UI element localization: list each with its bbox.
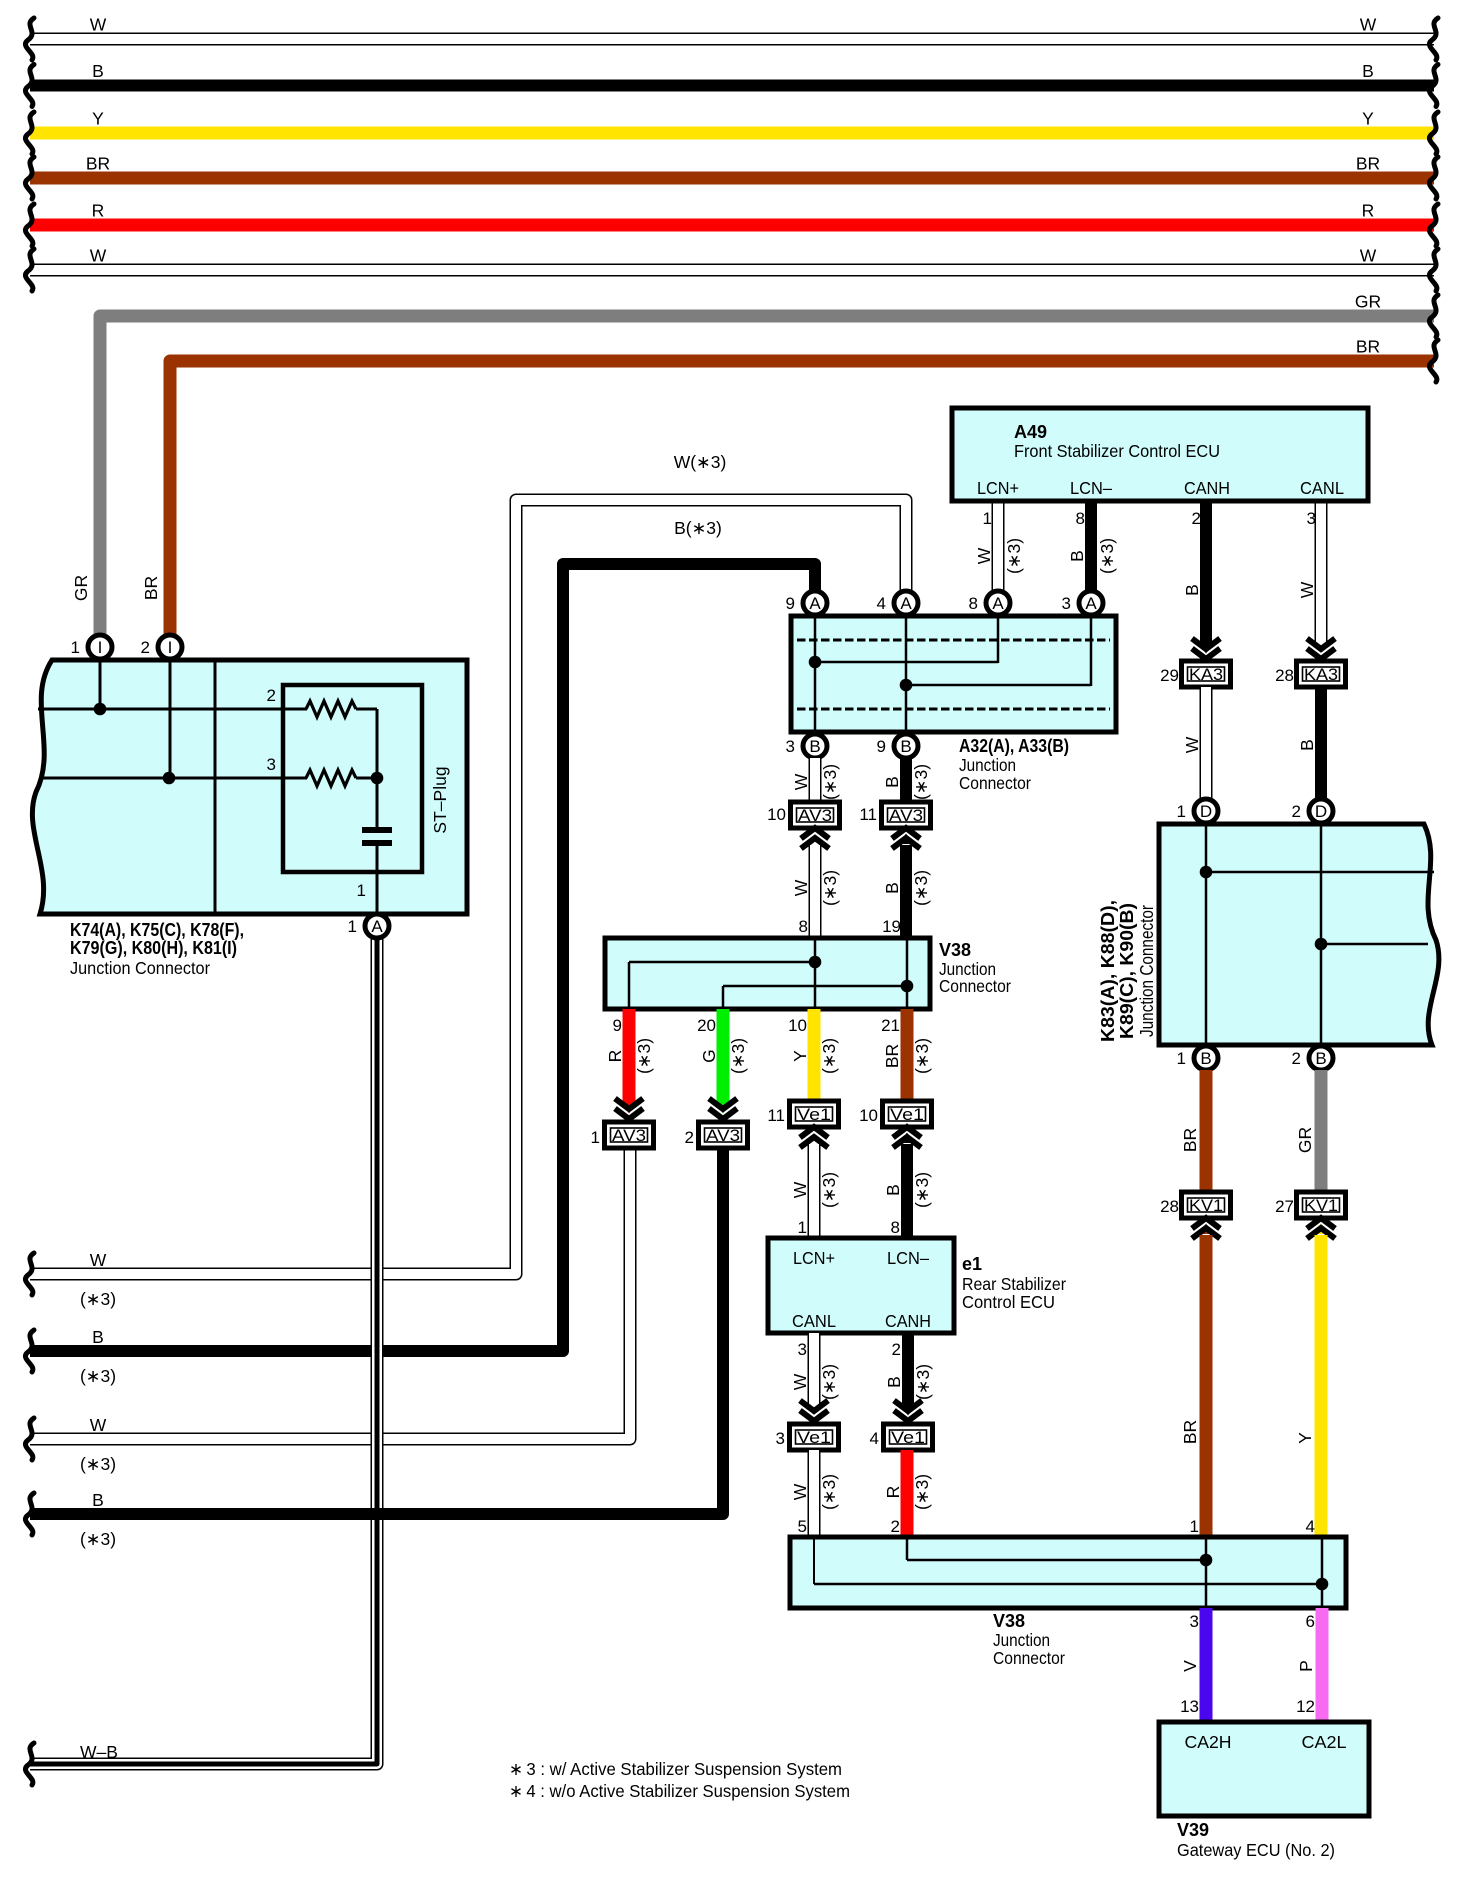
svg-text:3: 3 [267, 755, 276, 774]
wire R V38 pin9 to AV3 1 [623, 1009, 636, 1103]
svg-text:AV3: AV3 [706, 1127, 740, 1145]
svg-text:B: B [1200, 1049, 1211, 1068]
connector KV1 pin 28 [1182, 1192, 1231, 1218]
svg-text:B: B [92, 61, 104, 81]
svg-text:KA3: KA3 [1189, 666, 1223, 684]
svg-text:W: W [90, 15, 107, 35]
wire Y KV1 27 to V38 pin 4 [1315, 1235, 1328, 1540]
wire W from A49 LCN+ to A32 8A [992, 501, 1005, 592]
svg-text:Connector: Connector [993, 1648, 1065, 1668]
svg-text:1: 1 [348, 917, 357, 936]
connector AV3 pin 1 [605, 1122, 654, 1148]
svg-text:8: 8 [969, 594, 978, 613]
svg-text:W: W [1297, 581, 1317, 598]
arrow down into Ve1 3 [800, 1401, 828, 1422]
svg-text:Junction: Junction [993, 1630, 1050, 1650]
break right Y [1429, 112, 1438, 154]
svg-text:G: G [699, 1049, 719, 1063]
break left W [25, 18, 34, 60]
svg-text:13: 13 [1180, 1697, 1199, 1716]
svg-text:A32(A), A33(B): A32(A), A33(B) [959, 736, 1069, 756]
svg-text:W: W [1360, 15, 1377, 35]
break right B [1429, 65, 1438, 107]
svg-text:BR: BR [1180, 1420, 1200, 1444]
wire B e1 CANH to Ve1 4 [902, 1333, 914, 1406]
svg-text:W: W [790, 1373, 810, 1390]
svg-text:11: 11 [767, 1106, 785, 1125]
connector Ve1 pin 3 [790, 1424, 839, 1450]
node 1I [88, 635, 112, 659]
svg-text:K79(G), K80(H), K81(I): K79(G), K80(H), K81(I) [70, 938, 237, 958]
svg-text:ST–Plug: ST–Plug [430, 766, 450, 833]
svg-text:(∗3): (∗3) [80, 1289, 116, 1309]
svg-text:KV1: KV1 [1189, 1197, 1223, 1215]
wire P V38 pin6 to V39 CA2L [1316, 1608, 1329, 1722]
junction connector A32(A) A33(B) box [791, 616, 1116, 732]
svg-text:9: 9 [877, 737, 886, 756]
wire Y V38 pin10 to Ve1 11 [808, 1009, 821, 1101]
svg-text:A: A [1085, 594, 1097, 613]
svg-text:(∗3): (∗3) [820, 870, 840, 906]
wire W from A49 CANL to KA3 28 [1315, 501, 1328, 643]
arrow up from AV3 11 [892, 828, 920, 849]
svg-text:2: 2 [1292, 1049, 1301, 1068]
svg-text:GR: GR [71, 575, 91, 601]
svg-text:3: 3 [786, 737, 795, 756]
ST-Plug inner box [283, 685, 422, 872]
wire W Ve1 3 to V38 pin 5 [808, 1450, 821, 1540]
junction dot A32 right [900, 679, 913, 692]
svg-text:I: I [98, 638, 103, 657]
svg-text:(∗3): (∗3) [820, 764, 840, 800]
internal wire 3A to 4A [906, 684, 1091, 687]
svg-text:B: B [92, 1490, 104, 1510]
connector Ve1 pin 11 [790, 1101, 839, 1127]
svg-text:(∗3): (∗3) [80, 1366, 116, 1386]
svg-text:B: B [1067, 550, 1087, 562]
svg-text:GR: GR [1355, 292, 1381, 312]
ECU V39 Gateway ECU [1159, 1722, 1369, 1816]
break left R [25, 204, 34, 246]
svg-text:R: R [1362, 201, 1375, 221]
svg-text:4: 4 [870, 1429, 879, 1448]
svg-text:B: B [883, 1184, 903, 1196]
internal separator line K74 [214, 662, 217, 912]
internal wire 4A-9B [905, 618, 908, 730]
connector KA3 pin 28 [1297, 661, 1346, 687]
node 8A [986, 591, 1010, 615]
svg-text:Front Stabilizer Control ECU: Front Stabilizer Control ECU [1014, 441, 1220, 461]
connector Ve1 pin 4 [884, 1424, 933, 1450]
svg-text:5: 5 [798, 1517, 807, 1536]
wire BR KV1 28 to V38 pin 1 [1200, 1235, 1213, 1540]
svg-text:B: B [1182, 584, 1202, 596]
break left Y [25, 112, 34, 154]
svg-text:B(∗3): B(∗3) [674, 518, 722, 538]
svg-text:R: R [883, 1486, 903, 1499]
svg-text:(∗3): (∗3) [80, 1454, 116, 1474]
break left B [25, 65, 34, 107]
svg-text:4: 4 [877, 594, 886, 613]
internal wire resistor2 to vertical [356, 708, 377, 711]
svg-text:R: R [605, 1050, 625, 1063]
svg-text:B: B [809, 737, 820, 756]
svg-text:(∗3): (∗3) [911, 764, 931, 800]
svg-text:GR: GR [1295, 1127, 1315, 1153]
svg-text:(∗3): (∗3) [912, 1474, 932, 1510]
node 3A [1079, 591, 1103, 615]
dashed line upper A32 [797, 639, 1110, 642]
node 1D [1194, 799, 1218, 823]
wire GR from K74 pin1 to right [100, 316, 1434, 636]
internal wire 2D-2B [1320, 826, 1323, 1043]
svg-text:27: 27 [1275, 1197, 1294, 1216]
wire Y horizontal y=133 [30, 127, 1434, 140]
svg-text:CA2H: CA2H [1185, 1732, 1232, 1752]
svg-text:CANH: CANH [1184, 478, 1230, 498]
arrow down into AV3 1 [615, 1099, 643, 1120]
svg-text:3: 3 [1190, 1612, 1199, 1631]
wire B from A49 LCN- to A32 3A [1085, 501, 1097, 592]
break left W(*3) 2 [25, 1418, 34, 1460]
break left B(*3) 2 [25, 1493, 34, 1535]
svg-text:A49: A49 [1014, 422, 1047, 442]
svg-text:W–B: W–B [80, 1742, 118, 1762]
internal wire pin5 to pin4 [813, 1539, 815, 1584]
internal vertical to capacitor [376, 709, 379, 828]
node 2D [1309, 799, 1333, 823]
svg-text:(∗3): (∗3) [912, 1172, 932, 1208]
svg-text:KA3: KA3 [1304, 666, 1338, 684]
svg-text:BR: BR [86, 154, 110, 174]
node 1A [365, 914, 389, 938]
node 2B [1309, 1046, 1333, 1070]
junction dot V38b right [1316, 1578, 1329, 1591]
svg-text:2: 2 [1292, 802, 1301, 821]
arrow down into AV3 2 [709, 1099, 737, 1120]
svg-text:1: 1 [71, 638, 80, 657]
svg-text:W: W [974, 547, 994, 564]
svg-text:Junction: Junction [959, 755, 1016, 775]
svg-text:K74(A), K75(C), K78(F),: K74(A), K75(C), K78(F), [70, 920, 244, 940]
arrow up from KV1 28 [1192, 1218, 1220, 1239]
svg-text:(∗3): (∗3) [819, 1474, 839, 1510]
ECU e1 Rear Stabilizer Control ECU [768, 1238, 954, 1333]
connector Ve1 pin 10 [883, 1101, 932, 1127]
svg-text:Ve1: Ve1 [890, 1106, 924, 1124]
wire BR horizontal y=178 [30, 172, 1434, 185]
wire 2I stub [169, 660, 172, 778]
svg-text:Y: Y [1295, 1432, 1315, 1444]
svg-text:K83(A), K88(D),: K83(A), K88(D), [1098, 900, 1118, 1042]
svg-text:A: A [992, 594, 1004, 613]
wire 1I stub [99, 660, 102, 709]
svg-text:V: V [1180, 1660, 1200, 1672]
svg-text:V38: V38 [939, 940, 971, 960]
svg-text:3: 3 [798, 1340, 807, 1359]
internal wire 8A to 9A [815, 661, 998, 664]
svg-text:AV3: AV3 [798, 807, 832, 825]
svg-text:D: D [1200, 802, 1212, 821]
internal wire from 2D right [1321, 943, 1428, 946]
svg-text:2: 2 [685, 1128, 694, 1147]
svg-text:8: 8 [799, 917, 808, 936]
svg-text:e1: e1 [962, 1254, 982, 1274]
svg-text:1: 1 [1177, 1049, 1186, 1068]
junction dot V38b left [1200, 1554, 1213, 1567]
wire W(*3) from break to A32 pin 4A [30, 500, 906, 1274]
svg-text:P: P [1296, 1660, 1316, 1672]
internal wire row 2 [38, 708, 307, 711]
arrow down into KA3 28 [1307, 639, 1335, 660]
wire B 9B to AV3 11 [900, 758, 912, 802]
svg-text:(∗3): (∗3) [819, 1364, 839, 1400]
svg-text:9: 9 [613, 1016, 622, 1035]
node 9B [894, 734, 918, 758]
svg-text:B: B [900, 737, 911, 756]
svg-text:CA2L: CA2L [1302, 1732, 1347, 1752]
break right GR [1429, 295, 1438, 337]
internal wire from 8A [997, 618, 1000, 663]
junction connector V38 box [605, 938, 930, 1009]
wire B KA3 28 to K83 2D [1315, 687, 1327, 800]
svg-text:W: W [90, 246, 107, 266]
arrow down into KA3 29 [1192, 639, 1220, 660]
svg-text:9: 9 [786, 594, 795, 613]
svg-text:12: 12 [1296, 1697, 1315, 1716]
svg-text:(∗3): (∗3) [912, 1038, 932, 1074]
internal wire resistor3 to vertical [356, 777, 377, 780]
wire B Ve1 10 to e1 LCN- [901, 1144, 913, 1241]
svg-text:Junction Connector: Junction Connector [1137, 905, 1157, 1037]
svg-text:1: 1 [591, 1128, 600, 1147]
svg-text:BR: BR [1180, 1128, 1200, 1152]
svg-text:3: 3 [776, 1429, 785, 1448]
svg-text:Junction Connector: Junction Connector [70, 958, 210, 978]
svg-text:11: 11 [859, 805, 877, 824]
break left W(*3) [25, 1253, 34, 1295]
connector AV3 pin 2 [699, 1122, 748, 1148]
node 4A [894, 591, 918, 615]
svg-text:10: 10 [859, 1106, 878, 1125]
svg-text:B: B [1315, 1049, 1326, 1068]
svg-text:R: R [92, 201, 105, 221]
svg-text:2: 2 [267, 686, 276, 705]
svg-text:(∗3): (∗3) [1004, 538, 1024, 574]
svg-text:6: 6 [1306, 1612, 1315, 1631]
svg-text:2: 2 [891, 1517, 900, 1536]
break right BR [1429, 340, 1438, 382]
wire B from A49 CANH to KA3 29 [1200, 501, 1212, 643]
svg-text:Y: Y [1362, 109, 1374, 129]
break right W [1429, 249, 1438, 291]
svg-text:2: 2 [1192, 509, 1201, 528]
arrow up from AV3 10 [801, 828, 829, 849]
wire BR from K74 pin2 to right [170, 361, 1434, 636]
svg-text:3: 3 [1062, 594, 1071, 613]
svg-text:A: A [371, 917, 383, 936]
break left B(*3) [25, 1330, 34, 1372]
svg-text:4: 4 [1306, 1517, 1315, 1536]
wire G V38 pin20 to AV3 2 [717, 1009, 730, 1103]
svg-text:28: 28 [1275, 666, 1294, 685]
wire B horizontal y=85.5 [30, 80, 1434, 92]
svg-text:W: W [791, 879, 811, 896]
internal wire pin4-pin6 [1321, 1539, 1324, 1606]
wire B(*3) from AV3-2 to break [30, 1150, 723, 1514]
svg-text:B: B [882, 776, 902, 788]
junction dot K83 lower [1315, 938, 1328, 951]
svg-text:BR: BR [882, 1044, 902, 1068]
svg-text:2: 2 [141, 638, 150, 657]
junction dot row2 [94, 703, 107, 716]
svg-text:I: I [168, 638, 173, 657]
break left BR [25, 157, 34, 199]
junction dot ST-Plug [371, 772, 384, 785]
node 9A [803, 591, 827, 615]
svg-text:(∗3): (∗3) [913, 1364, 933, 1400]
connector KV1 pin 27 [1297, 1192, 1346, 1218]
svg-text:LCN+: LCN+ [793, 1248, 835, 1268]
svg-text:B: B [92, 1327, 104, 1347]
svg-text:1: 1 [983, 509, 992, 528]
internal wire pin19-pin21 [906, 940, 909, 1007]
dashed line lower A32 [797, 708, 1110, 711]
svg-text:B: B [1362, 61, 1374, 81]
svg-text:V39: V39 [1177, 1820, 1209, 1840]
wire R Ve1 4 to V38 pin 2 [901, 1450, 914, 1540]
junction dot V38 right [901, 980, 914, 993]
junction dot V38 left [809, 956, 822, 969]
svg-text:A: A [900, 594, 912, 613]
wire B AV3 11 to V38 pin 19 [900, 845, 912, 941]
svg-text:D: D [1315, 802, 1327, 821]
svg-text:(∗3): (∗3) [728, 1038, 748, 1074]
svg-text:W: W [790, 1181, 810, 1198]
svg-text:(∗3): (∗3) [634, 1038, 654, 1074]
connector AV3 pin 10 [791, 802, 840, 828]
svg-text:8: 8 [1076, 509, 1085, 528]
svg-text:AV3: AV3 [612, 1127, 646, 1145]
svg-text:W: W [90, 1415, 107, 1435]
svg-text:BR: BR [1356, 337, 1380, 357]
arrow up from Ve1 11 [800, 1127, 828, 1148]
svg-text:LCN–: LCN– [1070, 478, 1112, 498]
wire W Ve1 11 to e1 LCN+ [808, 1144, 821, 1241]
wire V V38 pin3 to V39 CA2H [1200, 1608, 1213, 1722]
svg-text:1: 1 [1177, 802, 1186, 821]
resistor in ST-Plug row 3 [306, 770, 356, 786]
svg-text:W(∗3): W(∗3) [674, 452, 727, 472]
wire R horizontal y=225 [30, 219, 1434, 232]
wire GR K83 2B to KV1 27 [1315, 1070, 1328, 1192]
svg-text:W: W [1182, 736, 1202, 753]
svg-text:W: W [90, 1250, 107, 1270]
break right BR [1429, 157, 1438, 199]
svg-text:Connector: Connector [959, 773, 1031, 793]
svg-text:29: 29 [1160, 666, 1179, 685]
svg-text:21: 21 [881, 1016, 900, 1035]
internal wire to pin9 [629, 961, 815, 964]
svg-text:K89(C), K90(B): K89(C), K90(B) [1117, 903, 1137, 1039]
internal wire row 3 [40, 777, 307, 780]
capacitor C in ST-Plug [362, 827, 392, 914]
break left W-B [25, 1743, 34, 1785]
svg-text:(∗3): (∗3) [911, 870, 931, 906]
svg-text:Y: Y [790, 1050, 810, 1062]
break right W [1429, 18, 1438, 60]
svg-text:∗ 3 : w/ Active Stabilizer Sus: ∗ 3 : w/ Active Stabilizer Suspension Sy… [509, 1759, 842, 1779]
junction connector K83 box [1159, 824, 1439, 1045]
svg-text:A: A [809, 594, 821, 613]
svg-text:LCN–: LCN– [887, 1248, 929, 1268]
svg-text:BR: BR [1356, 154, 1380, 174]
svg-text:10: 10 [788, 1016, 807, 1035]
svg-text:BR: BR [141, 576, 161, 600]
wire W-B from K74 pin 1A to break [30, 938, 377, 1764]
wire W horizontal y=270 [30, 264, 1434, 277]
wire BR V38 pin21 to Ve1 10 [901, 1009, 914, 1101]
svg-text:AV3: AV3 [889, 807, 923, 825]
ECU A49 Front Stabilizer Control ECU [952, 408, 1368, 501]
connector AV3 pin 11 [882, 802, 931, 828]
svg-text:Control ECU: Control ECU [962, 1292, 1055, 1312]
arrow down into Ve1 4 [894, 1401, 922, 1422]
break right R [1429, 204, 1438, 246]
svg-text:20: 20 [697, 1016, 716, 1035]
node 3B [803, 734, 827, 758]
svg-text:(∗3): (∗3) [819, 1038, 839, 1074]
svg-text:2: 2 [892, 1340, 901, 1359]
svg-text:Y: Y [92, 109, 104, 129]
wire W(*3) from AV3-1 to break [30, 1150, 630, 1439]
svg-text:(∗3): (∗3) [819, 1172, 839, 1208]
svg-text:(∗3): (∗3) [1097, 538, 1117, 574]
internal wire pin1-pin3 [1205, 1539, 1208, 1606]
svg-text:19: 19 [882, 917, 901, 936]
junction connector K74 box [32, 660, 467, 914]
svg-text:1: 1 [798, 1218, 807, 1237]
svg-text:(∗3): (∗3) [80, 1529, 116, 1549]
svg-text:1: 1 [357, 881, 366, 900]
arrow up from KV1 27 [1307, 1218, 1335, 1239]
internal wire to pin20 [723, 985, 907, 988]
svg-text:CANH: CANH [885, 1311, 931, 1331]
wire W 3B to AV3 10 [809, 758, 822, 802]
break left W [25, 249, 34, 291]
svg-text:8: 8 [891, 1218, 900, 1237]
internal wire pin8-pin10 [814, 940, 817, 1007]
junction dot row3 [163, 772, 176, 785]
svg-text:W: W [790, 1483, 810, 1500]
svg-text:B: B [1297, 739, 1317, 751]
internal wire pin2 to pin1 [906, 1539, 909, 1560]
node 1B [1194, 1046, 1218, 1070]
internal wire from 1D right [1206, 871, 1434, 874]
wire W KA3 29 to K83 1D [1200, 687, 1213, 800]
wire W horizontal y=39 [30, 33, 1434, 46]
svg-text:Ve1: Ve1 [797, 1429, 831, 1447]
wire W AV3 10 to V38 pin 8 [809, 845, 822, 941]
svg-text:W: W [791, 773, 811, 790]
arrow up from Ve1 10 [893, 1127, 921, 1148]
svg-text:KV1: KV1 [1304, 1197, 1338, 1215]
internal wire from 3A [1090, 618, 1093, 686]
svg-text:Ve1: Ve1 [891, 1429, 925, 1447]
svg-text:10: 10 [767, 805, 786, 824]
junction connector V38 bottom box [790, 1537, 1346, 1608]
node 2I [158, 635, 182, 659]
